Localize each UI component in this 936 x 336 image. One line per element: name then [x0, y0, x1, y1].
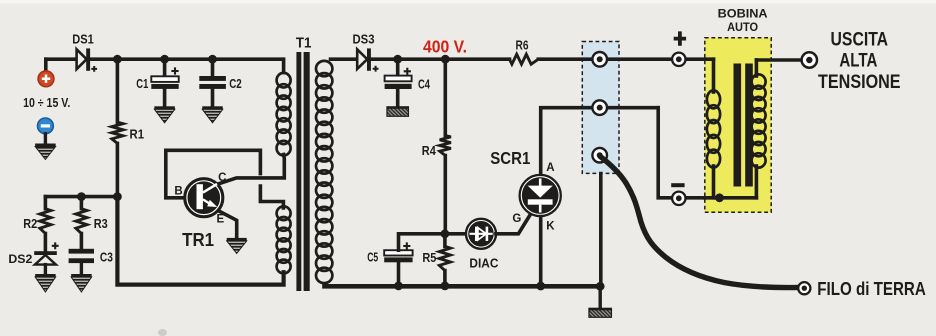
- svg-text:10 ÷ 15 V.: 10 ÷ 15 V.: [23, 95, 70, 110]
- wire: terminal2 jog down to minus terminal: [658, 108, 705, 198]
- svg-text:C4: C4: [418, 77, 431, 92]
- svg-text:R3: R3: [94, 216, 108, 231]
- emitter wire and ground: [219, 211, 237, 238]
- connector terminal 2: [592, 100, 607, 115]
- svg-text:SCR1: SCR1: [490, 148, 530, 168]
- wire: bottom rail primary side: [117, 197, 283, 285]
- svg-text:R2: R2: [23, 216, 37, 231]
- svg-text:A: A: [546, 162, 554, 174]
- ground below C3: [71, 274, 92, 277]
- page edge smudge: [158, 329, 167, 336]
- node: coil common junction: [715, 193, 724, 202]
- wire: DS3 to R6: [371, 57, 510, 61]
- wire: collector to upper winding: [219, 155, 285, 184]
- wire: connector 3 down to bottom rail: [599, 174, 603, 287]
- wire: battery plus to DS1: [46, 57, 77, 61]
- svg-text:TR1: TR1: [182, 230, 214, 250]
- node: R3 top junction: [77, 192, 86, 201]
- T1 primary lower winding: [277, 206, 291, 220]
- resistor R6: [510, 54, 539, 64]
- resistor R5: [439, 246, 450, 270]
- svg-text:R5: R5: [422, 250, 436, 265]
- node: C5 bottom: [394, 282, 403, 291]
- wire: top rail DS1 to T1 primary top: [90, 59, 284, 72]
- svg-text:DS1: DS1: [72, 32, 94, 47]
- node: SCR cathode bottom: [536, 282, 545, 291]
- svg-text:C2: C2: [229, 76, 242, 91]
- ground below DS2: [35, 274, 56, 277]
- svg-text:K: K: [546, 221, 555, 233]
- svg-text:R1: R1: [130, 126, 145, 141]
- battery minus terminal: [38, 118, 54, 134]
- resistor R4: [443, 59, 447, 135]
- svg-text:C3: C3: [100, 250, 113, 265]
- node: R1 top: [113, 55, 122, 64]
- battery plus terminal: [44, 59, 48, 70]
- wire: coil secondary to HV output: [756, 58, 801, 62]
- capacitor C4 (electrolytic): [396, 59, 400, 75]
- resistor R3: [80, 197, 84, 209]
- resistor R2: [44, 197, 48, 209]
- wire: R6 to plus output terminal: [538, 57, 713, 61]
- wire: base feedback loop: [166, 150, 261, 198]
- svg-text:C1: C1: [136, 76, 148, 91]
- transistor TR1: [185, 179, 222, 216]
- node: R1 bottom junction: [113, 192, 122, 201]
- svg-text:ALTA: ALTA: [839, 49, 877, 71]
- earth ground bottom right: [599, 286, 602, 308]
- wire: SCR cathode to bottom rail: [539, 217, 543, 286]
- earth ground below C4: [387, 107, 409, 117]
- ground below C2: [202, 106, 223, 109]
- svg-text:TENSIONE: TENSIONE: [818, 71, 901, 93]
- capacitor C5 (electrolytic): [397, 262, 401, 286]
- svg-text:AUTO: AUTO: [727, 21, 758, 34]
- node: R4 top: [441, 55, 450, 64]
- svg-text:USCITA: USCITA: [831, 29, 889, 51]
- T1 primary upper winding: [277, 73, 291, 88]
- node: R4-R5-DIAC junction: [441, 229, 450, 238]
- connector terminal 3: [592, 148, 607, 163]
- connector block (dashed blue box): [582, 42, 619, 174]
- thick earth cable: [600, 157, 799, 288]
- svg-text:C: C: [218, 172, 226, 184]
- svg-text:BOBINA: BOBINA: [718, 7, 769, 20]
- wire: minus wire inside coil box: [705, 196, 757, 200]
- plus output sign: [674, 31, 686, 45]
- wire: junction to DIAC: [445, 232, 466, 236]
- capacitor C1 (electrolytic): [163, 59, 167, 76]
- wire: DIAC to SCR gate: [496, 212, 532, 233]
- earth wire terminal: [798, 282, 810, 294]
- battery minus ground: [44, 134, 47, 144]
- svg-text:T1: T1: [296, 35, 312, 52]
- minus output terminal: [672, 192, 685, 205]
- ignition coil primary winding: [712, 59, 716, 92]
- node: C1 top: [160, 55, 169, 64]
- svg-text:G: G: [512, 213, 521, 225]
- svg-text:DS3: DS3: [353, 31, 375, 46]
- diac DIAC: [468, 221, 494, 247]
- T1 core: [296, 52, 301, 291]
- wire: secondary bottom rail: [325, 284, 601, 289]
- svg-text:400 V.: 400 V.: [423, 37, 467, 57]
- resistor R1: [116, 59, 120, 122]
- capacitor C3: [69, 249, 94, 254]
- wire: secondary top stub: [331, 57, 358, 61]
- wire: R2-R3 node rail: [45, 195, 117, 199]
- node: C4 top: [393, 55, 402, 64]
- high voltage output terminal: [802, 52, 817, 67]
- wire: SCR anode up to connector 2: [541, 108, 659, 175]
- svg-text:E: E: [216, 213, 224, 225]
- svg-text:DS2: DS2: [8, 252, 32, 266]
- connector terminal 1: [592, 52, 607, 67]
- svg-text:DIAC: DIAC: [469, 257, 498, 271]
- ignition coil box (dashed yellow box): [705, 38, 771, 213]
- svg-text:FILO di TERRA: FILO di TERRA: [817, 279, 926, 299]
- svg-text:R4: R4: [422, 143, 437, 158]
- svg-text:R6: R6: [516, 37, 529, 52]
- node: R5 bottom: [441, 282, 450, 291]
- T1 secondary winding: [316, 61, 332, 76]
- ground below C1: [154, 106, 175, 109]
- node: C2 top: [208, 55, 217, 64]
- ignition coil secondary winding: [755, 60, 759, 76]
- svg-text:B: B: [174, 186, 182, 198]
- plus output terminal: [672, 53, 685, 66]
- ignition coil core: [734, 64, 742, 187]
- wire: feedback continues to lower winding (hop): [260, 186, 283, 208]
- minus output sign: [671, 183, 684, 187]
- node: bottom rail right end: [596, 282, 605, 291]
- capacitor C2: [211, 59, 215, 76]
- svg-text:C5: C5: [367, 250, 378, 265]
